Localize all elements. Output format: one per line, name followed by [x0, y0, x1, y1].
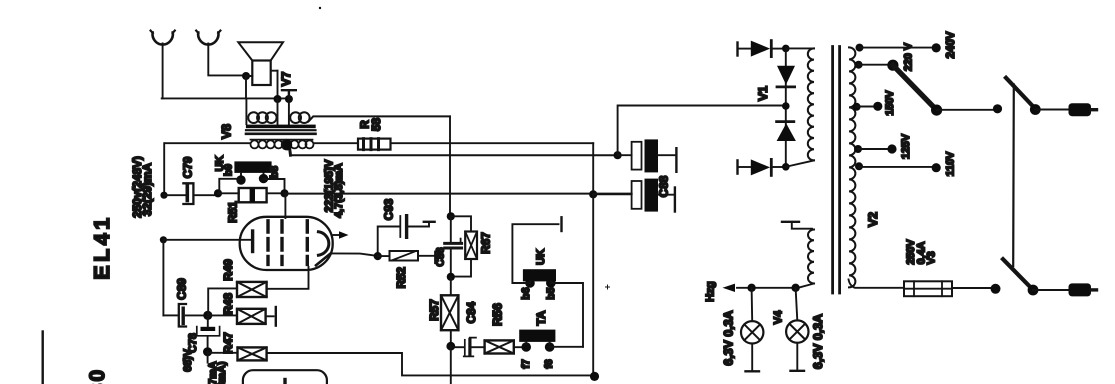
- wire screen grid: [284, 194, 286, 218]
- wire bus to C88 lower: [285, 193, 632, 195]
- wire node to bus: [245, 76, 247, 98]
- svg-text:V2: V2: [866, 212, 880, 227]
- svg-text:b9: b9: [222, 164, 234, 176]
- diode c bar: [777, 120, 794, 123]
- heater bus: [737, 287, 798, 289]
- svg-text:EL41: EL41: [90, 214, 114, 279]
- capacitor C89: [163, 304, 203, 327]
- wire to plug upper: [1035, 109, 1068, 111]
- svg-text:TA: TA: [534, 310, 548, 325]
- Hzg arrow: [723, 284, 736, 292]
- svg-text:110V: 110V: [945, 151, 957, 176]
- wire to plug lower: [1033, 289, 1068, 291]
- svg-text:f6: f6: [543, 359, 555, 368]
- resistor R48: [208, 307, 276, 326]
- wire to rectifier: [618, 106, 784, 156]
- svg-text:R52: R52: [394, 266, 408, 288]
- svg-text:240V: 240V: [944, 31, 957, 58]
- svg-text:R47: R47: [221, 332, 235, 354]
- heater winding chassis terminal: [782, 222, 812, 229]
- jack J1 (external speaker socket): [151, 31, 175, 45]
- wire anode to R52 node: [331, 253, 378, 256]
- wire vertical to bottom edge: [450, 346, 452, 384]
- svg-text:V8: V8: [219, 124, 233, 139]
- svg-text:R67: R67: [479, 232, 493, 254]
- transformer V2 primary winding: [786, 48, 814, 166]
- wire R58 line down to bus: [592, 143, 594, 194]
- switch S lower contact: [991, 284, 1001, 294]
- switch S upper contact: [993, 104, 1002, 113]
- svg-text:30: 30: [86, 368, 109, 384]
- label 223(195)V 4,7(3,8)mA: [324, 159, 345, 218]
- node bus/winding junction: [274, 95, 282, 103]
- rectifier V1 diode a: [738, 41, 786, 57]
- node R51 right / bus: [280, 189, 288, 197]
- svg-text:UK: UK: [535, 249, 547, 265]
- svg-text:6,3V 0,3A: 6,3V 0,3A: [811, 314, 825, 369]
- transformer V2 core: [833, 47, 840, 294]
- svg-text:32(29)mA: 32(29)mA: [140, 162, 154, 216]
- wire jack J2 to speaker: [208, 43, 244, 75]
- chassis terminal above V8: [282, 90, 296, 98]
- svg-text:R48: R48: [221, 292, 235, 314]
- capacitor C86: [445, 216, 462, 277]
- transformer V2 secondary winding: [849, 47, 855, 287]
- switch S lower pivot: [1028, 285, 1039, 296]
- node C78 bottom: [203, 347, 212, 356]
- jack J2 (external speaker socket): [196, 31, 220, 45]
- mains plug lower: [1069, 283, 1097, 296]
- wire speaker right terminal down: [277, 71, 279, 97]
- switch S lower blade: [1003, 259, 1033, 290]
- node cathode branch: [160, 236, 167, 243]
- node R51 left / bus: [214, 189, 222, 197]
- node V1 mid: [782, 102, 790, 110]
- node R52 left: [374, 252, 382, 260]
- label R 58: [358, 118, 384, 132]
- svg-text:6,3V 0,3A: 6,3V 0,3A: [722, 310, 736, 365]
- tube second stage (partial): [243, 370, 327, 384]
- node bus ground junction: [285, 95, 293, 103]
- dust mark: [606, 285, 610, 289]
- node V1 bottom: [782, 163, 790, 171]
- tube EL41: [240, 217, 333, 270]
- svg-text:C84: C84: [464, 301, 478, 323]
- svg-text:R51: R51: [226, 201, 240, 223]
- capacitor C79: [164, 183, 215, 204]
- node bottom bus corner: [590, 372, 599, 381]
- capacitor C78: [197, 315, 220, 347]
- capacitor C88b: [593, 179, 675, 212]
- left margin line: [42, 332, 44, 384]
- svg-text:R56: R56: [491, 303, 505, 326]
- lamp V4a: [741, 288, 763, 372]
- dust speck: [319, 7, 321, 9]
- resistor R57: [441, 277, 458, 346]
- svg-text:b8: b8: [269, 166, 281, 178]
- node V1 top: [782, 45, 790, 53]
- svg-text:4,7(3,8)mA: 4,7(3,8)mA: [333, 163, 345, 218]
- rectifier V1 diode d: [738, 159, 786, 175]
- svg-text:f7: f7: [520, 359, 532, 368]
- tap 110V: [855, 162, 941, 172]
- diode b bar: [777, 86, 795, 89]
- switch S upper blade: [1006, 78, 1035, 109]
- wire below node: [207, 352, 209, 363]
- svg-text:V1: V1: [756, 86, 770, 101]
- tap 220V: [855, 60, 899, 71]
- capacitor C93: [378, 216, 435, 256]
- tap 240V: [856, 43, 941, 52]
- wire cathode branch down: [162, 240, 164, 316]
- wire top bus: [162, 97, 289, 99]
- node C84 left: [446, 342, 455, 351]
- node C78 top: [203, 311, 212, 320]
- tap 125V: [854, 144, 897, 153]
- node lamp b: [791, 284, 799, 292]
- svg-text:C86: C86: [435, 247, 447, 266]
- node selector output: [931, 105, 942, 116]
- label 250V 0,4A V3: [905, 239, 938, 265]
- node bus junction: [589, 190, 597, 198]
- node C86 bottom: [447, 273, 455, 281]
- tap 150V: [853, 102, 883, 111]
- node speaker left terminal: [242, 72, 250, 80]
- wire jack J1 to bus: [162, 43, 164, 98]
- lamp V4b: [786, 288, 808, 371]
- rectifier V1 diode b: [777, 66, 795, 85]
- node C86 top: [447, 212, 455, 220]
- wire winding bottom to fuse: [849, 279, 905, 287]
- node lamp a: [747, 284, 755, 292]
- wire selector to switch: [937, 109, 996, 111]
- svg-text:58: 58: [369, 118, 383, 132]
- switch S upper pivot: [1030, 104, 1041, 115]
- anode arrow: [334, 231, 349, 239]
- svg-text:V3: V3: [926, 251, 938, 264]
- svg-text:V4: V4: [773, 310, 785, 324]
- svg-text:220 V: 220 V: [903, 42, 915, 71]
- svg-text:Hzg: Hzg: [705, 281, 717, 302]
- resistor R58: [358, 139, 593, 150]
- transformer V2 heater winding: [798, 230, 814, 288]
- voltage selector bar: [893, 65, 937, 110]
- pickup transformer TA terminals f7 f6: [519, 330, 583, 352]
- resistor R67: [451, 216, 477, 276]
- capacitor C84: [451, 338, 485, 357]
- svg-text:C93: C93: [382, 198, 396, 220]
- wire vertical to bottom bus: [592, 194, 594, 376]
- rectifier V1 diode c: [777, 123, 796, 141]
- svg-text:C88: C88: [657, 175, 671, 197]
- output transformer V8: [165, 98, 450, 155]
- resistor R56: [485, 340, 522, 353]
- switch link rod: [1012, 85, 1015, 267]
- coil UK terminals b9 b8: [219, 161, 284, 193]
- svg-text:6mA): 6mA): [216, 361, 228, 384]
- svg-text:V7: V7: [279, 71, 293, 86]
- svg-text:150V: 150V: [884, 90, 896, 116]
- svg-text:C79: C79: [180, 156, 194, 178]
- wire V8 primary left to C79 branch: [163, 143, 165, 195]
- fuse V3: [904, 281, 991, 296]
- svg-text:125V: 125V: [900, 133, 912, 159]
- svg-text:68)V: 68)V: [182, 348, 194, 372]
- wire cathode: [163, 239, 251, 241]
- svg-text:R49: R49: [221, 259, 235, 281]
- wire top line down (from V8 secondary top): [449, 116, 451, 216]
- svg-text:R57: R57: [427, 299, 441, 321]
- rectifier V1 rail: [785, 48, 787, 166]
- resistor R47: [208, 347, 594, 375]
- label 250V(248V) 32(29)mA: [130, 156, 154, 218]
- svg-text:b6: b6: [520, 287, 532, 299]
- svg-text:b5: b5: [545, 287, 557, 299]
- resistor R51: [218, 188, 285, 202]
- coil UK terminals b6 b5: [512, 217, 583, 346]
- mains plug upper: [1069, 103, 1097, 116]
- speaker V7: [238, 42, 283, 85]
- resistor R49: [208, 267, 308, 315]
- svg-text:C89: C89: [175, 278, 189, 300]
- node C79 left: [160, 192, 167, 199]
- capacitor C88a: [618, 139, 677, 172]
- wire V8 centre tap bus: [291, 154, 618, 156]
- resistor R52: [378, 251, 436, 263]
- node C88 upper: [614, 151, 622, 159]
